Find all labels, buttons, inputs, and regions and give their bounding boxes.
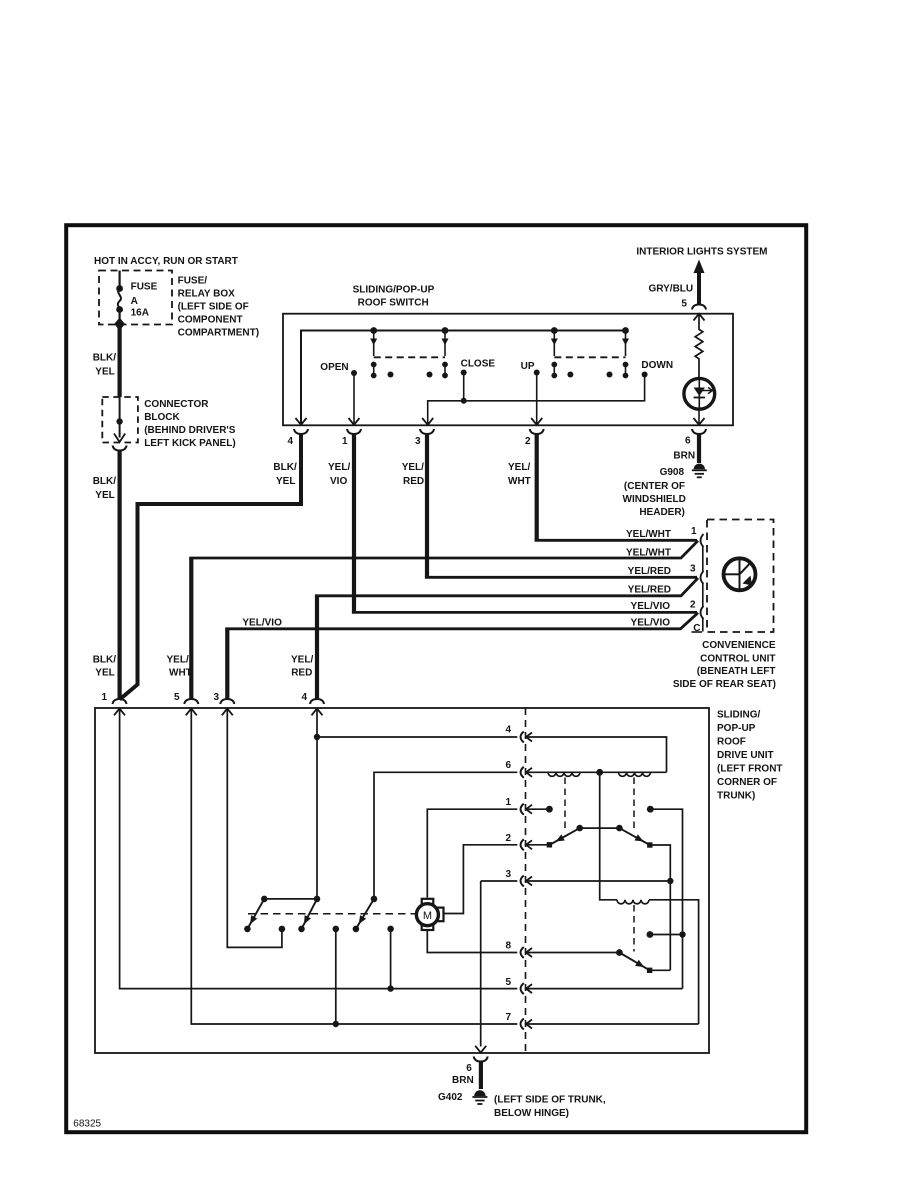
svg-text:2: 2	[525, 436, 531, 447]
wire row6	[374, 772, 517, 899]
svg-text:ROOF: ROOF	[717, 737, 746, 748]
svg-text:5: 5	[174, 692, 180, 703]
motor M	[416, 899, 443, 930]
connector block (dashed)	[102, 397, 138, 443]
switch pole contact d (x=625.5)	[622, 327, 629, 378]
wire row5	[120, 709, 518, 989]
svg-text:BLOCK: BLOCK	[144, 412, 180, 423]
svg-text:6: 6	[466, 1063, 472, 1074]
svg-text:POP-UP: POP-UP	[717, 723, 756, 734]
svg-text:BLK/: BLK/	[93, 353, 117, 364]
svg-text:3: 3	[415, 436, 421, 447]
svg-text:COMPARTMENT): COMPARTMENT)	[178, 328, 259, 339]
svg-text:8: 8	[505, 941, 511, 952]
svg-text:YEL/RED: YEL/RED	[628, 566, 671, 577]
svg-text:16A: 16A	[131, 308, 149, 319]
fuse/relay box (dashed)	[99, 271, 172, 325]
svg-text:68325: 68325	[73, 1119, 101, 1130]
svg-text:FUSE: FUSE	[131, 282, 158, 293]
svg-text:WHT: WHT	[508, 476, 531, 487]
wire row3 to ground exit	[480, 881, 482, 1047]
svg-text:TRUNK): TRUNK)	[717, 791, 755, 802]
svg-text:WINDSHIELD: WINDSHIELD	[623, 494, 686, 505]
svg-text:YEL/WHT: YEL/WHT	[626, 529, 671, 540]
wire BRN to G908	[697, 434, 701, 463]
coil L2	[619, 772, 651, 776]
svg-text:SLIDING/POP-UP: SLIDING/POP-UP	[353, 285, 435, 296]
svg-text:6: 6	[505, 760, 511, 771]
sliding/pop-up roof drive unit box	[95, 708, 709, 1053]
svg-text:YEL/VIO: YEL/VIO	[631, 617, 671, 628]
svg-text:BRN: BRN	[452, 1075, 474, 1086]
svg-text:2: 2	[690, 600, 696, 611]
wire pin3-top to limit contact	[227, 709, 282, 948]
svg-text:YEL: YEL	[95, 668, 114, 679]
svg-text:YEL/: YEL/	[508, 462, 530, 473]
svg-text:SIDE OF REAR SEAT): SIDE OF REAR SEAT)	[673, 679, 776, 690]
convenience control unit (dashed box)	[707, 520, 774, 633]
wire row1 to motor top	[427, 809, 517, 897]
internal connector dashed line	[525, 708, 527, 1053]
wire row3	[481, 880, 518, 882]
svg-text:A: A	[131, 296, 138, 307]
svg-text:1: 1	[102, 692, 108, 703]
svg-text:UP: UP	[521, 361, 535, 372]
switch pole contact c (x=554.3)	[551, 327, 558, 378]
svg-text:M: M	[423, 910, 432, 922]
svg-text:YEL/: YEL/	[402, 462, 424, 473]
wire motor bottom to row8	[427, 930, 480, 953]
svg-text:YEL/VIO: YEL/VIO	[242, 618, 282, 629]
svg-text:YEL/: YEL/	[167, 655, 189, 666]
svg-text:4: 4	[302, 692, 308, 703]
svg-text:(BEHIND DRIVER'S: (BEHIND DRIVER'S	[144, 425, 236, 436]
svg-text:4: 4	[288, 436, 294, 447]
svg-text:6: 6	[685, 436, 691, 447]
svg-text:SLIDING/: SLIDING/	[717, 710, 761, 721]
svg-text:CORNER OF: CORNER OF	[717, 777, 777, 788]
svg-text:OPEN: OPEN	[320, 362, 348, 373]
wire center vertical and coil L3	[600, 772, 617, 900]
mechanical coupler (dashed) up/down	[554, 356, 625, 358]
svg-text:YEL/WHT: YEL/WHT	[626, 547, 671, 558]
wire: bus down-arrow to pin 4	[296, 418, 307, 425]
wire LED to pin 6	[698, 408, 700, 424]
wire BLK/YEL switch pin4 to drive pin1	[120, 434, 301, 700]
svg-text:7: 7	[505, 1012, 511, 1023]
svg-text:RED: RED	[403, 476, 424, 487]
svg-text:LEFT KICK PANEL): LEFT KICK PANEL)	[144, 438, 235, 449]
svg-text:GRY/BLU: GRY/BLU	[649, 284, 694, 295]
svg-text:YEL/VIO: YEL/VIO	[631, 601, 671, 612]
svg-text:(LEFT SIDE OF TRUNK,: (LEFT SIDE OF TRUNK,	[494, 1095, 606, 1106]
switch arm pin8	[619, 953, 649, 971]
limit switch S2	[314, 896, 321, 903]
wire YEL/VIO switch pin1 to control pin2	[352, 434, 356, 612]
wire YEL/WHT switch pin2 to control pin1	[535, 434, 539, 540]
svg-text:(LEFT SIDE OF: (LEFT SIDE OF	[178, 302, 249, 313]
svg-text:YEL: YEL	[276, 476, 295, 487]
wire YEL/WHT drive pin5 to control pin1	[189, 558, 193, 700]
mech link L1 (dashed)	[564, 778, 566, 829]
svg-text:YEL: YEL	[95, 367, 114, 378]
svg-text:1: 1	[505, 797, 511, 808]
svg-text:YEL/RED: YEL/RED	[628, 584, 671, 595]
wire CLOSE/DOWN link to pin 3	[428, 375, 645, 425]
svg-text:G402: G402	[438, 1092, 463, 1103]
fixed contacts (unused throws)	[388, 372, 394, 378]
connector bump below block	[113, 446, 127, 451]
mech link L3 (dashed)	[633, 905, 635, 952]
svg-text:YEL: YEL	[95, 490, 114, 501]
svg-text:WHT: WHT	[169, 668, 192, 679]
svg-text:BRN: BRN	[673, 451, 695, 462]
wire BLK/YEL connector block to drive unit pin 1	[117, 451, 121, 701]
limit switch S1	[261, 896, 268, 903]
wire row2 to motor right	[444, 845, 518, 914]
solid state unit symbol	[724, 558, 756, 590]
switch pole contact a (x=373.7)	[370, 327, 377, 378]
connector bracket	[702, 547, 704, 632]
resistor (illumination)	[695, 315, 703, 379]
switch pole contact b (x=445)	[442, 327, 449, 378]
limit switch S3	[371, 896, 378, 903]
mechanical coupler (dashed) open/close	[374, 356, 445, 358]
svg-text:VIO: VIO	[330, 476, 347, 487]
junction node row6	[596, 769, 603, 776]
svg-text:(LEFT FRONT: (LEFT FRONT	[717, 764, 783, 775]
svg-text:INTERIOR LIGHTS SYSTEM: INTERIOR LIGHTS SYSTEM	[636, 247, 767, 258]
svg-text:CLOSE: CLOSE	[461, 359, 496, 370]
svg-text:CONTROL UNIT: CONTROL UNIT	[700, 654, 775, 665]
switch common bus wire	[301, 331, 626, 425]
svg-text:HEADER): HEADER)	[639, 507, 685, 518]
drive pin 6 (ground exit)	[474, 1057, 488, 1062]
svg-text:CONNECTOR: CONNECTOR	[144, 399, 209, 410]
svg-text:BELOW HINGE): BELOW HINGE)	[494, 1108, 569, 1119]
svg-text:2: 2	[505, 833, 511, 844]
wire GRY/BLU	[697, 272, 701, 304]
ground G402	[472, 1090, 487, 1104]
svg-text:G908: G908	[660, 467, 685, 478]
ground G908	[692, 464, 707, 478]
svg-text:ROOF SWITCH: ROOF SWITCH	[358, 298, 429, 309]
svg-text:DOWN: DOWN	[641, 360, 673, 371]
svg-text:HOT IN ACCY, RUN OR START: HOT IN ACCY, RUN OR START	[94, 256, 238, 267]
svg-text:3: 3	[690, 564, 696, 575]
svg-text:4: 4	[505, 725, 511, 736]
fuse A 16A	[114, 271, 125, 331]
svg-text:DRIVE UNIT: DRIVE UNIT	[717, 750, 774, 761]
wire YEL/VIO drive pin3 to control pin2	[225, 629, 229, 700]
svg-text:CONVENIENCE: CONVENIENCE	[702, 640, 776, 651]
wire BLK/YEL fuse to connector block	[117, 327, 121, 397]
wire BRN to G402	[479, 1062, 483, 1090]
svg-text:(BENEATH LEFT: (BENEATH LEFT	[697, 666, 776, 677]
coil L1	[548, 772, 580, 776]
svg-text:3: 3	[505, 869, 511, 880]
mech link L2 (dashed)	[633, 778, 635, 829]
relay switch center	[547, 842, 552, 847]
svg-text:3: 3	[214, 692, 220, 703]
svg-text:BLK/: BLK/	[93, 476, 117, 487]
svg-text:COMPONENT: COMPONENT	[178, 315, 243, 326]
border frame	[66, 225, 806, 1132]
svg-text:1: 1	[691, 526, 697, 537]
svg-text:(CENTER OF: (CENTER OF	[624, 481, 685, 492]
svg-text:5: 5	[505, 977, 511, 988]
wire row7	[191, 709, 517, 1025]
svg-text:1: 1	[342, 436, 348, 447]
svg-text:YEL/: YEL/	[291, 655, 313, 666]
svg-text:RED: RED	[291, 668, 312, 679]
svg-text:BLK/: BLK/	[273, 462, 297, 473]
svg-text:5: 5	[681, 299, 687, 310]
wire YEL/RED switch pin3 to control pin3	[425, 434, 429, 577]
svg-text:FUSE/: FUSE/	[178, 276, 208, 287]
svg-text:RELAY BOX: RELAY BOX	[178, 289, 236, 300]
fixed contact pair	[647, 931, 654, 938]
wire row8	[481, 952, 518, 954]
mech link limit switches (dashed)	[248, 913, 416, 915]
wire pin4-top down	[316, 709, 318, 899]
wire row1 right contact	[647, 806, 654, 813]
roof switch box	[283, 314, 733, 426]
svg-text:YEL/: YEL/	[328, 462, 350, 473]
svg-text:BLK/: BLK/	[93, 655, 117, 666]
LED / illumination bulb	[684, 378, 715, 409]
wire YEL/RED drive pin4 to control pin3	[315, 596, 319, 700]
wire row4	[314, 734, 320, 740]
